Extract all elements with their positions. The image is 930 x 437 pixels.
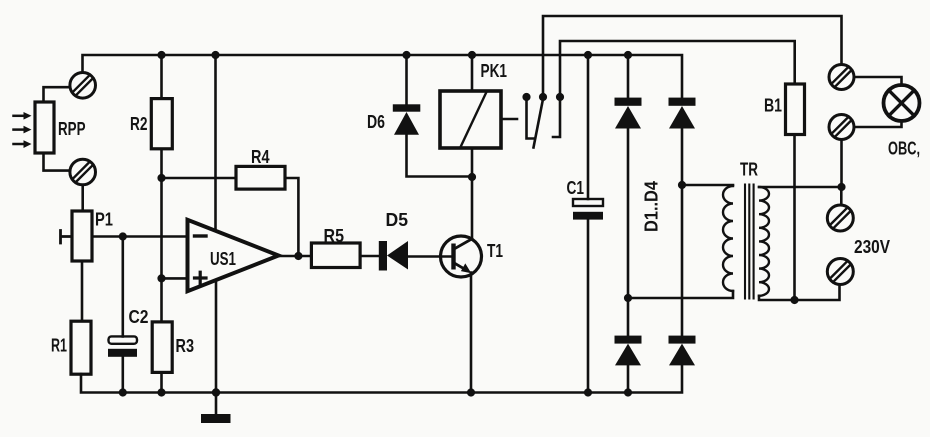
node: AC node left column [624, 294, 632, 302]
transformer TR core [745, 185, 754, 299]
arrow: light ray 2 into RPP [14, 126, 32, 134]
svg-text:US1: US1 [210, 248, 236, 269]
lamp OBC [884, 85, 920, 121]
wire: rail to R2 top [160, 55, 163, 99]
resistor R5 [311, 243, 360, 268]
wire: RPP top to terminal Z1 [44, 87, 71, 102]
wire: contact throw riser and link to B1 [560, 41, 795, 97]
photoresistor RPP [35, 102, 54, 153]
node: op-amp output junction [294, 252, 302, 260]
node: contact pin 3 [556, 93, 564, 101]
arrow: light ray 1 into RPP [14, 112, 32, 120]
node: contact pin 2 [539, 93, 547, 101]
screw terminal 230V lower [827, 259, 853, 285]
node: B1 / secondary bottom junction [790, 296, 798, 304]
wire: op-amp V+ supply to rail [214, 55, 217, 229]
relay PK1 coil [440, 91, 501, 148]
transistor T1 [441, 236, 482, 277]
ground [201, 393, 231, 424]
svg-text:C2: C2 [129, 306, 149, 327]
resistor R3 [152, 322, 172, 373]
node: op-amp V+ rail junction [211, 51, 219, 59]
svg-text:PK1: PK1 [481, 60, 508, 81]
wire: rail to D1 cathode [627, 55, 630, 98]
wire: +V top rail [83, 55, 683, 98]
wire: D6 anode to coil node [407, 135, 473, 177]
wire: OBC terminal upper to lamp [854, 77, 901, 86]
node: C2 bottom rail junction [119, 388, 127, 396]
potentiometer P1 [61, 211, 93, 261]
wire: PK1 coil bottom to collector node [471, 148, 474, 177]
wire: R3 bottom to 0V rail [160, 372, 163, 392]
fuse B1 [786, 84, 805, 135]
wire: mains node to 230V terminal upper [840, 187, 843, 205]
capacitor C2 [108, 336, 137, 356]
transformer TR primary winding [723, 186, 733, 291]
wire: P1 wiper to op-amp inverting input [92, 235, 188, 238]
svg-text:P1: P1 [95, 209, 113, 230]
wire: op-amp V- pin to 0V rail [215, 282, 218, 393]
wire: RPP bottom to terminal Z2 [44, 153, 71, 171]
wire: P1 bottom to R1 top [81, 261, 84, 321]
svg-text:R5: R5 [324, 225, 345, 246]
node: non-inverting input junction [157, 274, 165, 282]
screw terminal OBC upper [829, 65, 854, 90]
svg-text:B1: B1 [764, 95, 782, 116]
node: D1 rail junction [624, 51, 632, 59]
svg-text:OBC,: OBC, [888, 138, 920, 159]
wire: TR secondary top to mains node [759, 186, 842, 189]
relay contact moving arm [534, 99, 544, 148]
wire: D5 to T1 base [408, 255, 452, 258]
capacitor C1 [573, 199, 603, 220]
node: mains / secondary top junction [837, 183, 845, 191]
wire: bottom 0V rail [81, 365, 682, 392]
svg-text:TR: TR [740, 159, 758, 180]
node: R3 bottom rail junction [157, 388, 165, 396]
node: PK1 rail junction [468, 51, 476, 59]
wire: collector node to T1 collector [471, 177, 474, 239]
wire: R4 right to op-amp output [285, 178, 298, 256]
wire: terminal Z2 to P1 top [81, 185, 84, 211]
node: C1 bottom rail junction [584, 388, 592, 396]
screw terminal Z2 (RPP bottom) [70, 159, 96, 185]
wire: T1 emitter to 0V rail [470, 273, 473, 393]
diode D3 [615, 336, 642, 366]
svg-text:T1: T1 [487, 240, 503, 261]
svg-text:R1: R1 [51, 335, 67, 356]
wire: relay mechanical link [503, 118, 517, 121]
wire: rail to PK1 coil top [471, 55, 474, 91]
node: R2 top rail junction [157, 51, 165, 59]
resistor R1 [71, 321, 91, 374]
wire: R5 to D5 [360, 255, 379, 258]
svg-text:D5: D5 [386, 209, 409, 230]
wire: contact pole riser and top link to OBC terminal [543, 16, 842, 97]
node: coil / collector junction [468, 173, 476, 181]
svg-text:C1: C1 [567, 177, 585, 198]
screw terminal 230V upper [827, 205, 853, 231]
screw terminal Z1 (RPP top) [70, 73, 96, 99]
diode D5 [379, 241, 408, 271]
wire: OBC terminal lower to mains node [840, 140, 843, 188]
wire: AC node to TR primary top [682, 184, 733, 187]
node: D3 bottom rail junction [624, 388, 632, 396]
wire: TR secondary bottom to terminal 230V lower [759, 285, 840, 301]
diode D4 [669, 336, 696, 366]
wire: divider node to op-amp non-inverting input [162, 277, 188, 280]
wire: B1 bottom to secondary bottom [793, 135, 796, 301]
wire: R2 bottom to R3 top (divider) [160, 149, 163, 322]
wire: D3 anode to 0V rail [627, 365, 630, 392]
resistor R2 [151, 99, 172, 149]
op-amp US1 [188, 220, 279, 291]
wire: TR primary bottom to AC node [628, 291, 733, 298]
relay contact fixed post 2 [553, 100, 560, 137]
node: emitter rail junction [467, 388, 475, 396]
svg-text:R3: R3 [176, 335, 195, 356]
wire: rail to D6 cathode [405, 55, 408, 104]
resistor R4 [236, 166, 285, 189]
wire: D1 anode to D3 cathode (AC node) [627, 129, 630, 336]
node: AC node right column [678, 181, 686, 189]
svg-text:R2: R2 [130, 113, 148, 134]
svg-text:RPP: RPP [58, 118, 86, 139]
wire: node to C2 top [122, 237, 125, 337]
node: P1 wiper / C2 junction [119, 232, 127, 240]
node: contact pin 1 [522, 93, 530, 101]
node: C1 rail junction [584, 51, 592, 59]
wire: divider node to R4 left [162, 177, 237, 180]
svg-text:D6: D6 [367, 111, 385, 132]
svg-text:230V: 230V [854, 236, 891, 257]
svg-text:D1..D4: D1..D4 [641, 180, 662, 232]
arrow: light ray 3 into RPP [14, 140, 32, 148]
node: ground rail junction [212, 388, 220, 396]
diode D2 [669, 98, 696, 129]
diode D1 [615, 98, 642, 129]
svg-text:R4: R4 [251, 146, 270, 167]
diode D6 [393, 104, 421, 135]
node: D6 rail junction [402, 51, 410, 59]
screw terminal OBC lower [829, 115, 854, 140]
wire: rail to C1 top [587, 55, 590, 199]
wire: C2 bottom to 0V rail [122, 357, 125, 393]
wire: D2 anode to D4 cathode (AC node) [681, 129, 684, 336]
wire: lamp to OBC terminal lower [854, 121, 901, 128]
node: divider / R4 junction [157, 174, 165, 182]
wire: C1 bottom to 0V rail [587, 219, 590, 393]
relay contact fixed post 1 [527, 100, 534, 139]
transformer TR secondary winding [759, 187, 769, 296]
wire: op-amp output to R5 [279, 255, 312, 258]
